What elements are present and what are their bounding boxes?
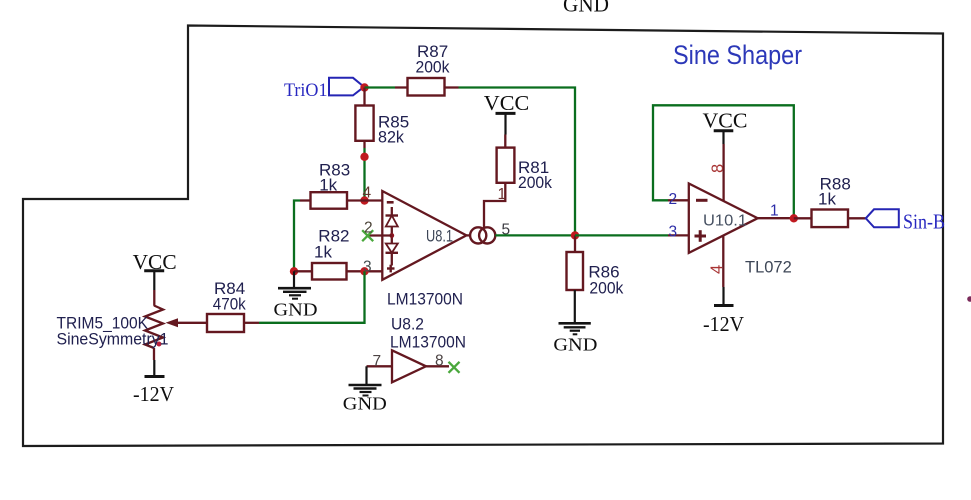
resistor R83 1k <box>300 161 382 209</box>
potentiometer TRIM5_100K body <box>57 306 169 349</box>
pin number 3 of U8.1 <box>363 258 372 275</box>
svg-text:1k: 1k <box>319 176 337 195</box>
svg-text:1k: 1k <box>818 189 836 208</box>
connector Sin-B <box>866 209 945 233</box>
ground GND under U8.2 pin7 <box>343 366 387 413</box>
resistor R84 470k <box>207 279 259 332</box>
border frame <box>23 26 943 447</box>
node pin4 junction <box>360 196 368 204</box>
value label TL072 <box>745 259 792 277</box>
svg-text:3: 3 <box>363 258 372 275</box>
ground GND under R82 left <box>274 271 318 319</box>
title Sine Shaper <box>673 40 802 70</box>
svg-text:200k: 200k <box>589 278 623 297</box>
node TriO1 junction <box>360 83 368 91</box>
node cropped at right edge <box>967 296 971 302</box>
resistor R81 200k <box>497 135 553 193</box>
pin 3 stub of U10.1 <box>668 234 689 236</box>
wire U8.1 output to node <box>495 234 575 236</box>
op-amp U8.1 LM13700N body <box>382 191 466 280</box>
svg-text:VCC: VCC <box>703 108 748 132</box>
svg-text:4: 4 <box>363 185 372 202</box>
no-connect X on pin 8 <box>449 362 460 373</box>
pin number 4 of U8.1 <box>363 185 372 202</box>
power -12V for U10.1 <box>703 287 744 336</box>
pin number 8 of U8.2 <box>435 353 444 370</box>
pin number 1 of U10.1 <box>770 203 779 220</box>
svg-text:2: 2 <box>364 220 373 237</box>
svg-text:U8.1: U8.1 <box>426 228 453 246</box>
svg-text:200k: 200k <box>518 173 552 192</box>
pin number 3 of U10.1 <box>669 224 678 241</box>
pin 4 wire of U10.1 <box>722 236 724 288</box>
pin 2 stub of U10.1 <box>668 199 689 201</box>
pin number 5 of U8.1 <box>502 222 511 239</box>
svg-text:LM13700N: LM13700N <box>390 333 466 352</box>
svg-text:200k: 200k <box>416 58 450 77</box>
power VCC for TRIM5 <box>133 250 177 306</box>
resistor R88 1k <box>794 175 866 228</box>
svg-text:U10.1: U10.1 <box>703 213 747 230</box>
svg-text:SineSymmetry1: SineSymmetry1 <box>57 330 169 349</box>
svg-text:2: 2 <box>669 191 678 208</box>
pin number 2 of U10.1 <box>669 191 678 208</box>
power VCC for U10.1 <box>703 108 748 144</box>
op-amp U10.1 body <box>689 184 758 253</box>
svg-text:1k: 1k <box>314 243 332 262</box>
svg-text:VCC: VCC <box>484 91 530 115</box>
power VCC for R81 <box>484 91 530 135</box>
node pin3 junction <box>360 267 368 275</box>
wire pin3 junction to R84 <box>259 271 365 323</box>
svg-text:LM13700N: LM13700N <box>387 290 463 309</box>
pin 8 stub of U8.2 <box>426 365 449 367</box>
potentiometer TRIM5_100K wiper arrow <box>166 318 208 327</box>
wire output node to U10.1 pin3 <box>575 234 668 236</box>
svg-text:Sin-B: Sin-B <box>903 210 945 234</box>
ground GND under R86 <box>553 290 597 355</box>
pin number 7 of U8.2 <box>373 353 382 370</box>
svg-text:TriO1: TriO1 <box>284 80 328 101</box>
pin number 8 of U10.1 <box>709 164 727 173</box>
node main output junction <box>571 231 579 239</box>
resistor R87 200k <box>395 42 459 96</box>
ground net label GND (top, cropped) <box>563 0 609 17</box>
pin 8 wire of U10.1 <box>722 144 724 201</box>
connector TriO1 <box>284 78 364 101</box>
svg-text:1: 1 <box>498 186 507 203</box>
node below R85 <box>360 153 368 161</box>
power -12V for TRIM5 <box>133 348 174 406</box>
svg-text:GND: GND <box>553 335 597 355</box>
svg-text:7: 7 <box>373 353 382 370</box>
pin number 4 of U10.1 <box>708 265 726 274</box>
node R82 left junction <box>290 267 298 275</box>
svg-text:TL072: TL072 <box>745 259 792 277</box>
svg-text:3: 3 <box>669 224 678 241</box>
svg-text:GND: GND <box>343 394 387 414</box>
pin number 2 of U8.1 <box>364 220 373 237</box>
diodes inside U8.1 <box>386 207 399 266</box>
wire R81 pin1 to U8.1 output circle <box>484 183 505 228</box>
svg-text:8: 8 <box>435 353 444 370</box>
feedback wire U10.1 pin2 loop <box>653 105 794 218</box>
svg-text:U8.2: U8.2 <box>391 315 424 334</box>
svg-text:8: 8 <box>709 164 727 173</box>
resistor R86 200k <box>567 235 624 297</box>
svg-text:470k: 470k <box>213 295 246 314</box>
output current-source circles of U8.1 <box>466 227 495 243</box>
svg-text:GND: GND <box>274 300 318 320</box>
svg-text:4: 4 <box>708 265 726 274</box>
value label LM13700N for U8.1 <box>387 290 463 309</box>
wire R85 to pin4 <box>363 148 365 201</box>
pin 1 stub of U10.1 <box>758 217 794 219</box>
node U10.1 output junction <box>790 214 798 222</box>
resistor R85 82k <box>355 88 409 149</box>
pin 7 stub of U8.2 <box>367 365 393 367</box>
resistor R82 1k <box>294 227 382 280</box>
wire TriO1 to R87 <box>365 86 396 88</box>
wire R87 right down to output node <box>459 88 576 236</box>
no-connect X on pin 2 <box>362 230 373 241</box>
svg-text:1: 1 <box>770 203 779 220</box>
wire R83 left to R82 left <box>294 201 300 272</box>
svg-text:Sine Shaper: Sine Shaper <box>673 40 802 70</box>
pin 2 stub of U8.1 <box>366 234 392 236</box>
svg-text:GND: GND <box>563 0 609 17</box>
op-amp U8.2 LM13700N body <box>390 315 466 383</box>
svg-text:82k: 82k <box>378 128 404 147</box>
svg-text:-12V: -12V <box>703 312 744 336</box>
svg-text:-12V: -12V <box>133 382 174 406</box>
pin number 1 of U8.1 (R81 side) <box>498 186 507 203</box>
